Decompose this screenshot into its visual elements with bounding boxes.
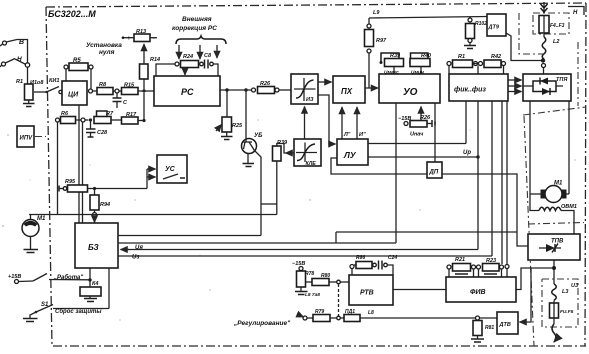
dash-dot diagonal mid right: [523, 107, 586, 115]
svg-text:УО: УО: [403, 87, 418, 98]
svg-text:R102: R102: [475, 21, 487, 27]
terminal +15V: [8, 274, 33, 284]
resistor R42 output row: [473, 54, 506, 68]
resistor R6: [56, 111, 89, 124]
resistor R8: [97, 82, 115, 95]
svg-text:фик..физ: фик..физ: [454, 87, 486, 94]
svg-text:ФИВ: ФИВ: [470, 289, 486, 296]
svg-text:Н: Н: [573, 10, 578, 16]
resistor R102: [466, 17, 488, 43]
node col 507: [505, 265, 509, 269]
fuse F4-F3 box: [533, 13, 569, 34]
ground at S1: [23, 312, 38, 322]
svg-text:L3: L3: [562, 289, 568, 295]
svg-text:R86: R86: [356, 255, 365, 261]
resistor R81 vertical: [473, 316, 494, 336]
wire rail 214: [29, 214, 277, 216]
wire node to FIV output: [516, 268, 554, 290]
block LU logic: [337, 139, 368, 165]
capacitor C: [113, 93, 129, 108]
svg-text:R42: R42: [491, 54, 501, 60]
resistor R94 vertical: [90, 187, 110, 217]
svg-text:R95: R95: [65, 179, 76, 185]
resistor R78 vertical: [297, 271, 315, 287]
wire stubs R1 R42 into FikFiz: [449, 66, 504, 75]
terminal -15V left: [292, 261, 305, 271]
resistor R39 vertical near KLE: [273, 140, 295, 161]
svg-text:R81: R81: [485, 325, 494, 331]
svg-text:Л": Л": [343, 132, 351, 138]
svg-text:нуля: нуля: [99, 49, 115, 56]
svg-text:ПХ: ПХ: [341, 87, 353, 96]
svg-text:ЛУ: ЛУ: [343, 150, 357, 160]
resistor R23 row above FIV: [477, 258, 504, 274]
resistor R1 output row: [447, 54, 478, 68]
ground under R25: [221, 132, 233, 140]
wire bridge 204: [261, 203, 277, 205]
wire stubs into FIV top: [449, 269, 507, 278]
block PH: [333, 76, 365, 103]
arrow R94 into BZ: [94, 217, 96, 223]
svg-text:Uмин: Uмин: [411, 70, 424, 76]
svg-text:+: +: [127, 36, 131, 42]
block RTV: [349, 275, 393, 305]
dash-dot vertical left of TPV long: [524, 116, 534, 346]
svg-text:УБ: УБ: [254, 133, 263, 139]
svg-text:„Регулирование": „Регулирование": [233, 320, 291, 327]
node R14 junction: [142, 79, 145, 93]
svg-text:R1: R1: [458, 54, 465, 60]
resistor R26: [258, 81, 292, 94]
svg-text:Установка: Установка: [86, 42, 122, 49]
svg-text:Uз: Uз: [132, 255, 139, 261]
wire KLE to IZ arrow up: [304, 107, 306, 140]
block FIV: [446, 277, 516, 302]
block UO amplifier: [379, 74, 440, 103]
motor M1 tach left: [22, 215, 46, 237]
relay K4: [80, 281, 101, 296]
svg-text:R94: R94: [100, 202, 110, 208]
inductor L3: [552, 284, 569, 300]
svg-text:Uнач: Uнач: [410, 132, 424, 138]
svg-text:Внешняя: Внешняя: [182, 16, 212, 23]
svg-text:R1: R1: [16, 79, 23, 85]
wire input junction: [15, 40, 30, 85]
wire bottom row to DTV: [360, 317, 497, 319]
svg-text:УС: УС: [165, 166, 176, 173]
svg-text:L2: L2: [553, 39, 559, 45]
potentiometer Unach bias: [398, 107, 431, 138]
output arrow below fuse: [552, 318, 556, 342]
block BZ protection: [75, 223, 118, 268]
label Ustanovka nulya: [86, 42, 122, 56]
block DP: [427, 162, 442, 178]
wire rail 249 Uya: [121, 245, 479, 251]
wire jog 336: [335, 232, 337, 243]
wire rail 232: [336, 231, 517, 233]
terminal V input: [0, 39, 24, 46]
svg-text:−: −: [152, 36, 156, 42]
resistor R7 with trim loop: [94, 111, 122, 124]
marker arrows above fuse: [541, 2, 548, 13]
border frame right dash-dot: [585, 3, 586, 346]
wire R14 to R13 with arrow: [143, 44, 145, 64]
border frame left dash-dot: [46, 7, 52, 346]
svg-text:ДП: ДП: [429, 170, 439, 176]
svg-text:U3: U3: [571, 283, 578, 289]
wire RTV to FIV: [393, 289, 446, 291]
svg-text:ТПЯ: ТПЯ: [556, 77, 568, 83]
svg-text:М1: М1: [37, 216, 46, 222]
wire RS correction left leg: [156, 64, 175, 76]
svg-text:Uя: Uя: [135, 245, 143, 251]
switch Rabota: [33, 274, 90, 282]
arrows external correction: [179, 45, 217, 59]
svg-text:F4..F3: F4..F3: [550, 23, 565, 29]
potentiometer R40 Umin above UO: [409, 53, 431, 76]
svg-text:БС3202...М: БС3202...М: [48, 9, 96, 19]
box U3 dash-dot: [542, 279, 578, 327]
ground under R81: [471, 336, 484, 343]
svg-text:КЛЕ: КЛЕ: [306, 161, 317, 167]
svg-text:ДТ9: ДТ9: [488, 25, 500, 31]
svg-text:РТВ: РТВ: [360, 290, 374, 297]
block IPV meter: [17, 126, 46, 147]
wire TPYa bottom columns: [530, 101, 569, 194]
svg-text:ИПV: ИПV: [20, 136, 34, 142]
wire rail 235: [118, 235, 261, 237]
svg-text:И": И": [359, 132, 366, 138]
wire IZ out to LU: [318, 95, 336, 144]
dash-dot vertical right of TPYa: [577, 42, 579, 106]
wire R5 feedback loop: [66, 69, 91, 88]
terminal N input: [0, 56, 22, 67]
svg-text:L9: L9: [373, 10, 380, 16]
svg-text:ЦИ: ЦИ: [68, 92, 79, 99]
svg-text:ОВМ1: ОВМ1: [561, 204, 577, 210]
wire DT9 to junction: [506, 33, 541, 61]
wire LU output Up row: [368, 144, 480, 159]
resistor R13 setpoint: [122, 29, 157, 42]
ground under R78: [295, 287, 308, 295]
block TPYa thyristor: [523, 74, 571, 101]
wire dashed column 338: [338, 284, 340, 316]
paper speckles: [2, 119, 585, 320]
wire BZ bottom node: [88, 268, 91, 287]
block IZ limiter with curve: [291, 74, 318, 104]
svg-text:ДТВ: ДТВ: [499, 322, 511, 328]
inductor OVM1 field winding: [530, 194, 577, 234]
potentiometer R39 Umax above UO: [380, 53, 404, 76]
svg-text:C: C: [123, 100, 128, 106]
svg-text:+15В: +15В: [8, 274, 21, 280]
resistor R86 above RTV: [350, 255, 376, 275]
wire rail 243: [118, 242, 396, 244]
ground under R1: [23, 100, 35, 107]
svg-text:R97: R97: [376, 38, 387, 44]
resistor R79: [307, 309, 340, 322]
transistor UB: [242, 90, 264, 154]
block US: [157, 155, 187, 183]
capacitor C28: [86, 121, 108, 137]
resistor R80: [305, 273, 349, 298]
svg-text:L8: L8: [368, 310, 374, 316]
fuse FU-F5: [550, 301, 574, 319]
svg-text:L8 7а8: L8 7а8: [305, 292, 320, 298]
resistor R24 correction: [175, 54, 203, 68]
svg-text:Сброс защиты: Сброс защиты: [55, 308, 102, 315]
block TsI amplifier: [62, 81, 87, 105]
wire UO to DP top: [434, 103, 436, 162]
wire TsI outputs down to BZ: [58, 105, 83, 223]
switch KI1: [34, 78, 62, 94]
resistor R5 feedback: [64, 58, 93, 71]
node between R8 R15: [115, 89, 119, 93]
choke PD1: [340, 309, 374, 322]
svg-text:R78: R78: [305, 271, 314, 277]
svg-text:C24: C24: [388, 255, 397, 261]
svg-text:C8: C8: [204, 53, 212, 59]
switch S1 sbros: [35, 268, 109, 315]
svg-text:РС: РС: [181, 87, 194, 97]
svg-text:БЗ: БЗ: [88, 243, 99, 252]
resistor R14 vertical: [140, 57, 161, 79]
node TsI output: [89, 89, 98, 93]
terminal regulirovanie: [299, 315, 307, 320]
wire PH to LU arrows L and I: [342, 107, 366, 139]
wire IZ to PH arrow: [318, 81, 332, 83]
arrows FikFiz to TPYa: [508, 80, 522, 92]
wire node to DTV arrow: [520, 268, 532, 322]
label Vneshnyaya korrektsiya RS with brace: [172, 16, 226, 44]
wire PH to UO arrow: [365, 87, 378, 89]
wire rail 256 Uz: [118, 255, 492, 261]
svg-text:КИ1: КИ1: [49, 78, 59, 84]
ground right of Unach: [427, 120, 435, 127]
motor M1 armature right: [530, 181, 569, 203]
svg-text:Uр: Uр: [463, 150, 471, 156]
diodes inside TPYa: [523, 78, 563, 96]
svg-text:Uмакс: Uмакс: [384, 70, 399, 76]
resistor R21 row above FIV: [447, 257, 476, 274]
svg-text:R14: R14: [150, 57, 160, 63]
capacitor C8 correction: [204, 53, 218, 76]
wire TPV bottom to node: [552, 260, 556, 284]
potentiometer R25: [216, 90, 243, 132]
resistor R97: [365, 18, 388, 88]
resistor R17: [122, 112, 145, 124]
wire DP output to TPV column: [442, 174, 528, 246]
svg-text:ИЗ: ИЗ: [306, 97, 314, 103]
resistor R95: [59, 179, 147, 192]
ground under R102: [464, 43, 476, 49]
block DT9: [487, 14, 506, 36]
dash-dot corner near fuse column: [519, 13, 543, 54]
border frame bottom dash-dot: [53, 345, 586, 347]
svg-text:R21: R21: [455, 257, 465, 263]
resistor R1 (input divider): [16, 79, 44, 100]
wire FikFiz bottom columns: [466, 101, 507, 264]
inductor L2: [542, 34, 559, 59]
svg-text:К4: К4: [92, 281, 98, 287]
dash-dot separator above TPV: [528, 223, 584, 225]
ground under K4: [84, 296, 97, 302]
svg-text:C28: C28: [97, 130, 108, 136]
node R6 R7 junction: [89, 118, 92, 121]
ground under M1: [24, 237, 39, 253]
wire L9 rail: [369, 10, 487, 18]
svg-text:FU.F5: FU.F5: [560, 309, 574, 315]
label N corner top right: [568, 7, 584, 17]
block FikFiz: [449, 74, 508, 101]
wire UB emitter ground: [243, 154, 255, 167]
wire UO down to rail 243: [395, 103, 397, 243]
node main junction right: [541, 58, 546, 74]
arrows into US: [147, 169, 156, 189]
resistor R15: [119, 83, 154, 95]
wire UB collector down: [255, 151, 262, 236]
block KLE with curve: [294, 139, 321, 167]
block DTV: [497, 312, 518, 334]
svg-text:−15В: −15В: [292, 261, 305, 267]
wire LU lower loop to DP: [331, 158, 427, 174]
block RS regulator: [154, 76, 220, 106]
wire R39 down to rail: [276, 161, 278, 215]
border frame top dash-dot: [46, 3, 586, 7]
svg-text:R24: R24: [183, 54, 193, 60]
capacitor C24: [379, 255, 398, 275]
arrow into RS top: [184, 68, 186, 75]
svg-text:R25: R25: [232, 123, 243, 129]
wire R17 up to node: [142, 93, 145, 122]
svg-text:коррекция РС: коррекция РС: [172, 25, 217, 32]
block TPV thyristor converter: [528, 234, 580, 260]
wire RS output row: [220, 88, 256, 92]
